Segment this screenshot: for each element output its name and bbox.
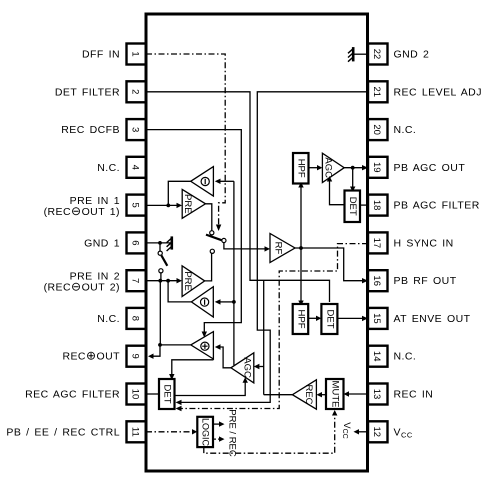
svg-text:DET: DET xyxy=(347,197,358,216)
svg-text:10: 10 xyxy=(130,389,141,400)
block DET lower xyxy=(321,304,337,334)
svg-text:12: 12 xyxy=(371,427,382,438)
switch S2 (GND1 to pin7 node) xyxy=(158,243,167,281)
op-amp REC minus 2 (feedback amp, tip left) xyxy=(191,287,213,317)
wire pin21 REC LEVEL ADJ net to DET(10) xyxy=(176,92,369,405)
svg-text:7: 7 xyxy=(130,278,141,283)
svg-text:MUTE: MUTE xyxy=(329,381,340,408)
svg-text:N.C.: N.C. xyxy=(394,124,417,136)
amplifier PRE 1 xyxy=(182,189,205,218)
svg-text:PB AGC FILTER: PB AGC FILTER xyxy=(394,200,480,212)
pin 1 DFF IN xyxy=(82,44,146,65)
op-amp REC minus 1 (feedback amp, tip left) xyxy=(191,167,214,196)
svg-text:11: 11 xyxy=(130,427,141,437)
svg-text:3: 3 xyxy=(130,127,141,132)
svg-text:REC⊕OUT: REC⊕OUT xyxy=(62,349,120,363)
op-amp REC plus (tip left) xyxy=(191,332,214,359)
svg-text:AT ENVE OUT: AT ENVE OUT xyxy=(394,313,471,325)
svg-text:17: 17 xyxy=(371,238,382,249)
svg-text:RF: RF xyxy=(273,242,284,255)
svg-text:19: 19 xyxy=(371,162,382,173)
wire DET lower to pin 15 xyxy=(337,316,368,321)
wire S1 common to RF input xyxy=(224,243,270,252)
svg-text:PRE: PRE xyxy=(182,194,193,214)
svg-text:PRE / REC: PRE / REC xyxy=(226,409,237,457)
wire MUTE to REC amp xyxy=(316,392,326,397)
svg-text:AGC: AGC xyxy=(241,357,252,378)
pin 19 PB AGC OUT xyxy=(368,157,465,178)
wire pin5 node xyxy=(146,181,191,208)
pin 20 N.C. xyxy=(368,119,416,140)
pin 11 PB / EE / REC CTRL xyxy=(6,421,146,442)
svg-text:15: 15 xyxy=(371,313,382,324)
pin 4 N.C. xyxy=(97,157,146,178)
wire LOGIC output REC (dashed) xyxy=(213,436,225,441)
svg-text:DET: DET xyxy=(162,385,173,404)
wire pin10 to DET xyxy=(146,393,159,395)
pin 2 DET FILTER xyxy=(55,81,146,102)
svg-text:1: 1 xyxy=(130,51,141,56)
switch S1 (PB/REC select) xyxy=(206,231,226,254)
wire REC plus lower to DET(10) xyxy=(169,360,213,380)
amplifier AGC 2 (tip left) xyxy=(231,353,254,383)
pin 6 GND 1 xyxy=(84,232,146,253)
pin 13 REC IN xyxy=(368,384,433,405)
wire RF output node xyxy=(295,182,368,306)
svg-text:PRE: PRE xyxy=(182,271,193,291)
svg-text:6: 6 xyxy=(130,240,141,245)
svg-text:5: 5 xyxy=(130,202,141,207)
pin 15 AT ENVE OUT xyxy=(368,308,471,329)
svg-text:(REC⊖OUT 1): (REC⊖OUT 1) xyxy=(44,204,120,218)
wire PRE2 output to switch xyxy=(205,253,212,281)
svg-text:14: 14 xyxy=(371,351,382,362)
svg-text:GND 2: GND 2 xyxy=(394,49,430,61)
block LOGIC xyxy=(197,417,213,447)
pin 21 REC LEVEL ADJ xyxy=(368,81,482,102)
svg-text:GND 1: GND 1 xyxy=(84,237,120,249)
svg-text:PB / EE / REC CTRL: PB / EE / REC CTRL xyxy=(6,426,120,438)
pin 7 PRE IN 2 / (REC-OUT 2) xyxy=(44,270,146,294)
svg-text:REC DCFB: REC DCFB xyxy=(61,124,120,136)
svg-text:PB AGC OUT: PB AGC OUT xyxy=(394,162,466,174)
block DET upper xyxy=(345,191,361,223)
amplifier REC (tip left) xyxy=(292,380,316,409)
svg-text:REC: REC xyxy=(303,384,314,404)
pin 12 Vcc xyxy=(368,421,413,442)
svg-text:DET: DET xyxy=(324,310,335,329)
wire to REC minus 2 input xyxy=(215,299,234,304)
svg-text:9: 9 xyxy=(130,354,141,359)
pin 22 GND 2 xyxy=(368,44,429,65)
svg-text:13: 13 xyxy=(371,389,382,400)
svg-text:2: 2 xyxy=(130,89,141,94)
amplifier RF (tip right) xyxy=(270,234,295,263)
wire DET upper feedback to AGC1 control xyxy=(327,176,345,205)
wire pin1 DFF dash-dot control to switch S1 xyxy=(146,54,225,231)
wire S2 node down to REC plus output node xyxy=(158,279,162,345)
wire DET upper to pin 18 xyxy=(360,204,368,206)
block DET (pin 10) xyxy=(159,379,175,409)
pin 10 REC AGC FILTER xyxy=(25,384,146,405)
svg-text:DET FILTER: DET FILTER xyxy=(55,86,120,98)
svg-text:21: 21 xyxy=(371,87,382,98)
svg-text:N.C.: N.C. xyxy=(97,313,120,325)
svg-text:REC IN: REC IN xyxy=(394,389,434,401)
svg-text:PB RF OUT: PB RF OUT xyxy=(394,275,457,287)
wire REC plus input from AGC2 xyxy=(215,344,231,368)
pin 9 REC+OUT xyxy=(62,346,146,367)
wire HPF lower to DET lower xyxy=(308,316,321,321)
wire REC plus output to pin 9 xyxy=(148,343,191,359)
svg-text:AGC: AGC xyxy=(323,157,334,178)
pin 8 N.C. xyxy=(97,308,146,329)
amplifier AGC 1 (tip right) xyxy=(322,153,344,182)
wire PRE1 output to switch xyxy=(206,204,212,231)
IC body xyxy=(146,14,368,471)
pin 18 PB AGC FILTER xyxy=(368,195,480,216)
svg-text:(REC⊖OUT 2): (REC⊖OUT 2) xyxy=(44,280,120,294)
ground pin 6 xyxy=(167,236,173,251)
wire pin6 GND1 xyxy=(146,241,172,245)
wire feedback net from AGC2 output to minus amps xyxy=(232,181,236,365)
svg-text:LOGIC: LOGIC xyxy=(200,418,210,447)
wire HPF to AGC1 xyxy=(309,165,323,170)
block MUTE xyxy=(326,379,344,409)
wire LOGIC output PRE xyxy=(213,421,225,426)
svg-text:18: 18 xyxy=(371,200,382,211)
svg-text:DFF IN: DFF IN xyxy=(82,49,120,61)
svg-text:4: 4 xyxy=(130,165,141,170)
wire pin7 node xyxy=(146,278,191,302)
svg-text:N.C.: N.C. xyxy=(394,351,417,363)
svg-text:20: 20 xyxy=(371,124,382,135)
svg-text:8: 8 xyxy=(130,316,141,321)
wire pin2 DET FILTER net xyxy=(146,92,330,395)
pin 14 N.C. xyxy=(368,346,416,367)
svg-text:REC AGC FILTER: REC AGC FILTER xyxy=(25,389,120,401)
svg-text:16: 16 xyxy=(371,275,382,286)
amplifier PRE 2 xyxy=(182,266,205,297)
wire to REC minus 1 input xyxy=(215,179,234,184)
ground pin 22 xyxy=(348,47,368,62)
svg-text:HPF: HPF xyxy=(296,159,307,178)
wire DET(10) output to AGC2 control xyxy=(175,377,248,395)
svg-text:H SYNC IN: H SYNC IN xyxy=(394,237,454,249)
svg-text:N.C.: N.C. xyxy=(97,162,120,174)
wire pin11 dash-dot to LOGIC xyxy=(146,429,197,434)
svg-text:22: 22 xyxy=(371,49,382,60)
block HPF upper xyxy=(293,153,309,184)
label PRE / REC xyxy=(226,409,237,457)
pin 16 PB RF OUT xyxy=(368,270,457,291)
wire pin13 to MUTE xyxy=(344,391,369,396)
wire pin3 REC DCFB net xyxy=(146,130,241,338)
wire AGC1 to pin 19 and DET xyxy=(344,165,368,192)
pin 17 H SYNC IN xyxy=(368,232,454,253)
wire REC output to AGC2 input net xyxy=(264,394,293,396)
pin 5 PRE IN 1 / (REC-OUT 1) xyxy=(44,195,146,219)
svg-text:REC LEVEL ADJ: REC LEVEL ADJ xyxy=(394,86,482,98)
pin 3 REC DCFB xyxy=(61,119,146,140)
block HPF lower xyxy=(293,304,309,334)
svg-text:HPF: HPF xyxy=(295,310,306,329)
wire pin17 H SYNC dash-dot to DET(10) xyxy=(176,244,369,412)
Vcc arrow pin 12 xyxy=(341,422,368,438)
wire LOGIC dash-dot to MUTE control xyxy=(204,410,338,453)
